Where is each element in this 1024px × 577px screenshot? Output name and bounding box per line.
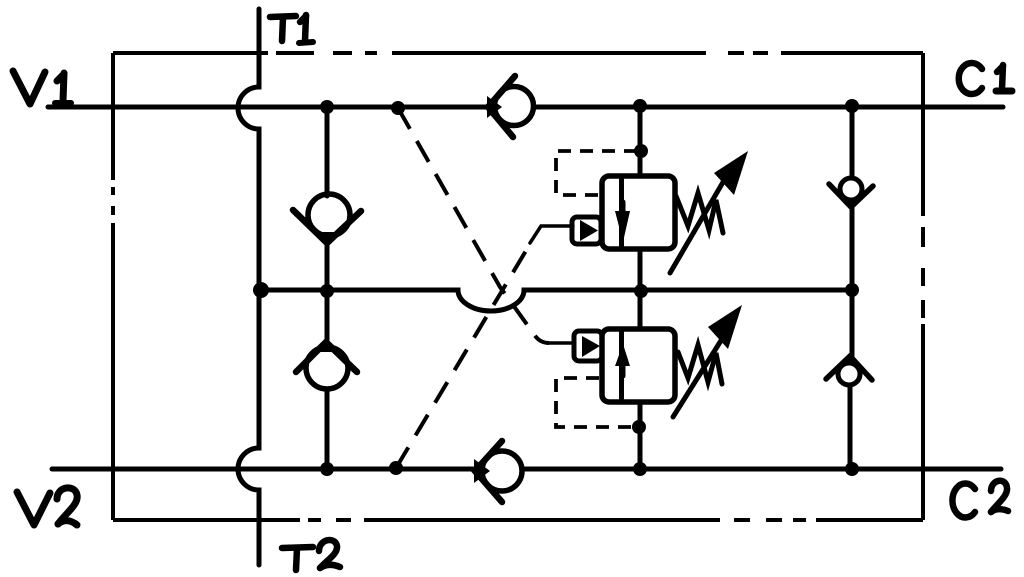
label C1 bbox=[959, 63, 1012, 94]
junction dot V2/left branch bbox=[320, 462, 334, 476]
CB2 spring bbox=[678, 345, 722, 384]
junction dot V1/pilot A bbox=[391, 101, 405, 115]
enclosure border left (chain line) bbox=[111, 53, 115, 520]
CB2 flow arrow up bbox=[621, 364, 626, 376]
check valve CV5 seat bbox=[488, 76, 515, 137]
CB1 pilot piston box bbox=[572, 217, 601, 244]
wire left branch upper bbox=[325, 107, 330, 196]
check valve CV4 seat bbox=[826, 356, 872, 380]
wire valve branch upper bbox=[638, 107, 643, 176]
wire right branch mid upper bbox=[850, 205, 855, 290]
junction dot middle/right branch bbox=[845, 283, 859, 297]
check valve CV1 seat bbox=[293, 210, 361, 243]
check valve CV5 on top line: circle bbox=[495, 87, 534, 126]
enclosure border top (chain line) bbox=[113, 51, 923, 55]
check valve CV3 seat bbox=[829, 184, 873, 207]
junction dot V2/valve branch bbox=[633, 462, 647, 476]
label T2 bbox=[282, 540, 340, 570]
wire left branch lower bbox=[325, 389, 330, 469]
junction dot V1/right branch bbox=[845, 99, 859, 113]
check valve CV6 seat bbox=[475, 441, 502, 502]
junction dot V1/left branch bbox=[320, 100, 334, 114]
wire left branch mid bbox=[325, 242, 330, 343]
CB1 pilot piston arrow bbox=[580, 220, 598, 241]
check valve CV5 seat wedge bbox=[487, 96, 502, 118]
counterbalance valve CB1 body bbox=[602, 176, 675, 249]
junction dot middle/tank line bbox=[253, 282, 269, 298]
wire valve branch lower bbox=[638, 402, 643, 469]
wire right branch mid lower bbox=[850, 290, 855, 357]
wire valve branch middle bbox=[638, 249, 643, 329]
check valve CV2 seat bbox=[296, 342, 357, 372]
wire V2-C2 bottom line left part bbox=[52, 467, 477, 472]
pilot cross line A (from V1 to CB2 pilot) bbox=[398, 108, 549, 343]
junction dot middle/left branch bbox=[320, 284, 334, 298]
check valve CV1 seat wedge bbox=[318, 232, 340, 247]
junction dot CB1 pilot tap bbox=[634, 144, 648, 158]
CB1 flow arrow down bbox=[621, 202, 626, 214]
wire right branch lower bbox=[848, 385, 853, 469]
CB1 spring bbox=[676, 193, 723, 233]
junction dot V2/right branch bbox=[845, 462, 859, 476]
junction dot middle/valve branch bbox=[634, 284, 648, 298]
check valve CV6 on bottom line: circle bbox=[482, 451, 522, 491]
CB2 pilot piston arrow bbox=[582, 336, 600, 357]
junction dot CB2 pilot tap bbox=[632, 420, 646, 434]
label C2 bbox=[952, 481, 1008, 518]
check valve CV3 circle bbox=[840, 178, 862, 200]
label V1 bbox=[13, 71, 71, 104]
wire V1-C1 top line right part bbox=[534, 105, 1003, 110]
CB1 adjustment arrow bbox=[670, 165, 733, 273]
label T1 bbox=[270, 15, 313, 43]
check valve CV4 seat wedge bbox=[844, 354, 856, 364]
check valve CV3 seat wedge bbox=[845, 198, 857, 208]
junction dot V1/valve branch bbox=[633, 99, 647, 113]
wire right branch upper bbox=[850, 107, 855, 178]
junction dot V2/pilot B bbox=[389, 461, 403, 475]
CB1 internal pilot dashed line bbox=[556, 151, 637, 195]
CB2 pilot connection stub bbox=[548, 341, 574, 345]
CB1 pilot connection stub bbox=[530, 226, 573, 243]
wire tank line T1-T2 with hops over V1 and V2 bbox=[238, 9, 259, 565]
counterbalance valve CB2 body bbox=[602, 329, 675, 402]
check valve CV6 seat wedge bbox=[474, 459, 490, 483]
enclosure border right (chain line) bbox=[921, 53, 925, 520]
check valve CV4 circle bbox=[838, 363, 860, 385]
CB2 pilot piston box bbox=[574, 331, 602, 361]
wire V1-C1 top line left part bbox=[48, 105, 490, 110]
wire middle rail with hop bbox=[259, 290, 852, 311]
check valve CV2 circle bbox=[306, 347, 348, 389]
enclosure border bottom (chain line) bbox=[113, 518, 923, 522]
CB2 internal pilot dashed line bbox=[556, 378, 633, 427]
pilot cross line B (from V2 to CB1 pilot) bbox=[396, 244, 530, 468]
wire V2-C2 bottom line right part bbox=[523, 467, 1001, 472]
check valve CV2 seat wedge bbox=[316, 339, 338, 352]
CB1 inner port line bbox=[619, 176, 624, 249]
CB2 adjustment arrow bbox=[673, 331, 727, 417]
check valve CV1 circle bbox=[308, 194, 350, 236]
label V2 bbox=[17, 488, 77, 525]
CB2 inner port line bbox=[619, 329, 624, 402]
